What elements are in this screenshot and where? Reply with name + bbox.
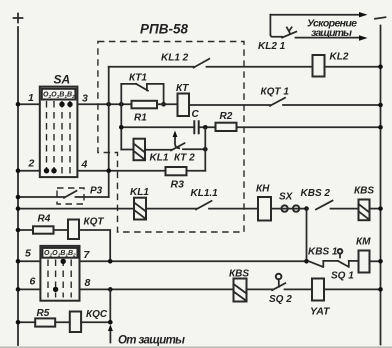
- wire C row left: [121, 126, 194, 128]
- wire KT1 branch right: [147, 84, 164, 104]
- wire row1: SA terminal 3 to node: [77, 103, 131, 105]
- junction dot bus R4 row: [16, 228, 21, 233]
- svg-text:КТ1: КТ1: [129, 73, 147, 84]
- svg-text:КBS: КBS: [229, 269, 249, 280]
- contact SQ1 (NC): [338, 261, 349, 267]
- wire KBS2 to KBS coil: [331, 208, 359, 210]
- relay coil KBS top (hatched): [359, 200, 370, 221]
- right bus (-): [380, 26, 382, 345]
- wire KH to SX: [271, 208, 307, 210]
- svg-text:КQС: КQС: [86, 309, 108, 320]
- wire R4 to KQT coil: [54, 229, 69, 231]
- junction dot bus KQC row: [16, 320, 21, 325]
- wire KL1b row from bus: [18, 208, 134, 210]
- relay coil KL1 (hatched): [134, 139, 146, 161]
- capacitor C: [194, 120, 198, 134]
- vertical x306.5 KBS2 row to row7: [306, 209, 308, 262]
- wire KL1 coil to KL1.1 contact: [146, 208, 196, 210]
- svg-text:KBS 2: KBS 2: [301, 188, 331, 199]
- relay coil KH: [258, 197, 271, 221]
- contact KQT1: [270, 98, 285, 106]
- svg-text:SQ 1: SQ 1: [331, 271, 354, 282]
- node KT2/vertical: [203, 147, 208, 152]
- junction dot right bus row8: [378, 287, 383, 292]
- svg-text:3: 3: [82, 93, 88, 105]
- SA lower contact dot row8: [53, 287, 58, 292]
- svg-text:КМ: КМ: [356, 237, 371, 248]
- junction dot bus row1: [16, 102, 21, 107]
- svg-text:SA: SA: [54, 73, 71, 87]
- wire to KL1 coil (top): [121, 149, 133, 151]
- contact KT2 (time delay): [171, 143, 185, 150]
- dashed box RPV-58: [98, 42, 244, 233]
- contact SQ2: [272, 283, 285, 290]
- svg-text:6: 6: [30, 276, 36, 288]
- vertical wire x205.3: [204, 127, 206, 170]
- wire KQC to junction: [81, 321, 110, 323]
- scan edge shadow bottom: [0, 346, 392, 348]
- svg-text:C: C: [192, 109, 200, 120]
- wire KL1.2 row: [109, 66, 194, 68]
- contact KT1 branch top wire: [121, 83, 136, 85]
- resistor R3: [166, 167, 187, 175]
- svg-text:КQТ: КQТ: [84, 217, 105, 228]
- junction dot right bus row7: [378, 259, 383, 264]
- wire row2: SA terminal 4 to R3: [77, 170, 165, 172]
- vertical wire x108.7 (KL1.2 row to P3 row): [108, 67, 110, 197]
- wire row2: bus to SA terminal 2: [18, 170, 40, 172]
- junction dot bus KL1b row: [16, 206, 21, 211]
- node C/R2: [203, 125, 208, 130]
- svg-text:KL1.1: KL1.1: [191, 188, 219, 199]
- wire KL1.1 to KH coil: [209, 208, 258, 210]
- wire R5 to KQC coil: [55, 321, 70, 323]
- svg-text:SQ 2: SQ 2: [269, 294, 292, 305]
- svg-text:РПВ-58: РПВ-58: [140, 22, 188, 37]
- wire KM to right bus: [370, 260, 381, 262]
- relay coil KM: [359, 251, 370, 273]
- node x306.5 row7: [304, 259, 309, 264]
- wire KQT to corner down to row7: [79, 230, 110, 261]
- svg-text:8: 8: [85, 277, 91, 289]
- node x108.7 row2: [106, 168, 111, 173]
- svg-text:Р3: Р3: [90, 186, 103, 197]
- wire YAT to right bus: [324, 288, 381, 290]
- wire row8: SA8 to KBS coil: [80, 288, 234, 290]
- wire SQ1 to KM coil: [349, 260, 359, 262]
- svg-text:SX: SX: [279, 192, 294, 203]
- acceleration bracket vertical: [269, 15, 271, 35]
- acceleration arrow top: [270, 12, 367, 17]
- svg-text:KL1: KL1: [130, 187, 149, 198]
- SA contact dot B2 row1: [67, 102, 72, 107]
- wire KL2 coil to right bus: [325, 66, 381, 68]
- junction dot bus row7: [16, 259, 21, 264]
- minus terminal symbol: [375, 17, 386, 19]
- connector SX circles: [281, 205, 299, 211]
- wire P3 to vertical corner: [76, 196, 109, 198]
- contact KBS2: [316, 201, 333, 210]
- vertical x110.3 row8 to KQC row: [109, 289, 111, 322]
- wire row8: bus to SA6: [18, 288, 40, 290]
- svg-text:R1: R1: [134, 113, 147, 124]
- svg-text:КQТ 1: КQТ 1: [261, 87, 290, 98]
- coil YAT: [312, 279, 324, 301]
- wire KL1 coil to KT2 contact: [145, 149, 171, 151]
- node KQC row end: [108, 320, 113, 325]
- wire row7: SA7 to KBS1 junction: [80, 260, 307, 262]
- svg-text:KL2: KL2: [330, 52, 349, 63]
- contact KL1.1: [196, 201, 212, 210]
- wire KBS coil to right bus: [370, 208, 381, 210]
- resistor R4: [33, 226, 54, 233]
- contact KL2.1: [270, 27, 296, 37]
- wire C to R2: [199, 126, 216, 128]
- vertical wire x121.3 (KT1 branch to KL1 coil row): [120, 84, 122, 150]
- plus terminal symbol: [14, 14, 23, 23]
- wire R1 to KT coil: [157, 103, 178, 105]
- wire R4 row from bus: [18, 229, 33, 231]
- svg-text:R5: R5: [37, 308, 50, 319]
- dashed box P3: [57, 188, 84, 204]
- SA contact dot O2 row2: [44, 168, 49, 173]
- junction dot right bus KBS row: [378, 206, 383, 211]
- SA contact dot O1 row2: [51, 168, 56, 173]
- left bus (+): [17, 27, 19, 345]
- switch SA lower block: [40, 246, 79, 301]
- node at x108.7 row1: [106, 102, 111, 107]
- contact KL1.2: [194, 59, 210, 68]
- svg-text:КН: КН: [256, 184, 270, 195]
- junction dot bus P3 row: [16, 195, 21, 200]
- wire KT coil to KQT1 contact: [189, 104, 270, 106]
- wire KT2 to vertical: [183, 148, 205, 150]
- svg-text:R2: R2: [220, 111, 233, 122]
- svg-text:R4: R4: [38, 214, 51, 225]
- svg-text:KL1: KL1: [150, 153, 169, 164]
- resistor R5: [35, 318, 55, 326]
- relay coil KL2: [313, 55, 325, 77]
- node vertical top at KBS2 row: [304, 206, 309, 211]
- svg-text:2: 2: [28, 158, 35, 170]
- SQ2 circle pivot: [276, 274, 282, 287]
- svg-text:4: 4: [81, 159, 88, 171]
- relay coil KQT: [68, 220, 79, 240]
- wire R3 to vertical: [187, 170, 206, 172]
- junction dot bus row2: [16, 168, 21, 173]
- node x110.3 row8: [108, 287, 113, 292]
- resistor R1: [132, 101, 158, 109]
- relay coil KL1 mid (hatched): [134, 198, 146, 220]
- wire KL1.2 to KL2 coil: [207, 66, 313, 68]
- wire row1 left: bus to SA terminal 1: [18, 103, 40, 105]
- SA contact dot B1 row1: [59, 102, 64, 107]
- junction dot right bus row1: [378, 103, 383, 108]
- KT2 delay arrow symbol: [175, 137, 179, 149]
- wire KQT1 to right bus: [283, 104, 381, 106]
- svg-text:5: 5: [25, 248, 31, 260]
- svg-text:KL1 2: KL1 2: [161, 53, 189, 64]
- arrow from protection: [108, 325, 113, 343]
- wire row7: bus to SA5: [18, 260, 40, 262]
- svg-text:R3: R3: [171, 179, 185, 191]
- svg-text:KBS 1: KBS 1: [308, 247, 338, 258]
- contact KBS1 (NC): [309, 261, 324, 267]
- svg-text:КBS: КBS: [354, 186, 374, 197]
- junction dot bus row8: [16, 287, 21, 292]
- wire between KBS1 and SQ1: [323, 260, 338, 262]
- switch SA upper block: [40, 87, 78, 178]
- node x110.2 row7: [108, 259, 113, 264]
- relay coil KT: [178, 94, 190, 117]
- svg-text:КТ 2: КТ 2: [174, 153, 195, 164]
- node right of R1: [161, 102, 166, 107]
- wire SQ2 to YAT coil: [285, 288, 313, 290]
- SA lower contact dot row7: [61, 259, 66, 264]
- relay coil KQC: [70, 312, 81, 333]
- acceleration arrow bottom: [296, 35, 368, 40]
- junction dot right bus KL2 row: [378, 65, 383, 70]
- wire KQC row from bus: [18, 321, 35, 323]
- node at x121.3 row1: [119, 102, 124, 107]
- contact KT1 blade (NC): [136, 84, 148, 91]
- contact P3: [64, 191, 77, 198]
- junction dot right bus R2 row: [378, 125, 383, 130]
- svg-text:KL2 1: KL2 1: [258, 41, 286, 52]
- wire KBS to SQ2: [247, 288, 273, 290]
- resistor R2: [216, 123, 237, 131]
- junction dot x121.3 C row: [119, 125, 124, 130]
- svg-text:1: 1: [28, 92, 34, 104]
- wire R2 to right bus: [237, 126, 381, 128]
- relay coil KBS bottom (hatched): [234, 279, 247, 302]
- SQ1 circle pivot: [338, 249, 343, 258]
- svg-text:YAT: YAT: [310, 306, 331, 318]
- svg-text:КТ: КТ: [176, 83, 189, 94]
- wire P3 row from bus: [18, 196, 64, 198]
- svg-text:От защиты: От защиты: [118, 335, 185, 347]
